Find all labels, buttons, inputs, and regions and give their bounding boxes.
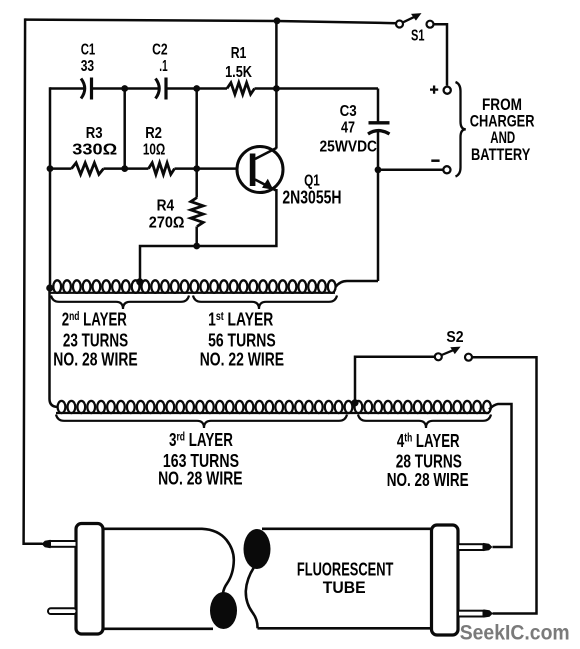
node R3-R2 junction [121,165,128,172]
svg-text:R4: R4 [157,198,175,215]
svg-text:3rd LAYER: 3rd LAYER [169,430,233,450]
wire S2 right down to tube bottom-right pin [472,357,536,613]
svg-text:1st LAYER: 1st LAYER [208,310,273,330]
svg-text:28 TURNS: 28 TURNS [396,452,462,472]
tube break blob right [244,529,271,569]
svg-text:NO. 22 WIRE: NO. 22 WIRE [200,349,284,369]
wire vertical x=124.7 (C1-C2 node down to R3-R2 node) [123,89,126,169]
svg-text:R2: R2 [145,125,162,142]
wire S1 to plus terminal [434,24,447,85]
label FROM CHARGER AND BATTERY [470,95,535,164]
svg-text:25WVDC: 25WVDC [320,139,378,156]
svg-text:R3: R3 [86,125,103,142]
svg-text:FLUORESCENT: FLUORESCENT [297,560,394,580]
switch S1 [396,13,434,28]
wire C1/C2/R1 row y=88.5 [50,87,84,90]
fluorescent tube right end cap [432,525,459,635]
label 1st layer block [200,310,284,370]
tube break blob left [210,592,237,629]
resistor R3 [72,163,104,175]
svg-text:33: 33 [81,58,94,75]
svg-text:SeekIC.com: SeekIC.com [460,621,570,645]
wire inner-left vertical x=50 [49,87,52,288]
wire coil2 tap up to S2 [355,357,435,403]
wire C3 riser bottom down to coil1 right end [377,130,380,281]
svg-text:56 TURNS: 56 TURNS [208,331,276,351]
battery brace [456,82,466,177]
fluorescent tube left body [103,529,234,593]
node R3 left junction [47,165,54,172]
label FLUORESCENT TUBE [297,560,394,598]
label 3rd layer block [158,430,243,489]
svg-text:270Ω: 270Ω [149,215,185,232]
resistor R4 [191,198,203,227]
svg-text:NO. 28 WIRE: NO. 28 WIRE [387,470,469,490]
node C1-C2 junction [121,85,128,92]
svg-text:C3: C3 [340,103,357,120]
svg-text:R1: R1 [231,45,247,62]
wire left outer border down to tube pin [24,18,43,543]
pin top-right [458,544,484,550]
svg-text:C2: C2 [152,42,168,59]
svg-text:BATTERY: BATTERY [471,145,531,164]
svg-text:10Ω: 10Ω [143,142,166,159]
svg-text:NO. 28 WIRE: NO. 28 WIRE [158,469,243,489]
brace 3rd layer [56,415,347,429]
svg-text:NO. 28 WIRE: NO. 28 WIRE [53,349,137,369]
winding coil row 2 (3rd + 4th layer) [56,412,489,414]
wire C3 riser top [377,89,380,122]
pin top-left [50,541,77,547]
brace 2nd layer [51,296,189,310]
label plus sign [430,86,438,94]
node R1-collector junction [273,85,280,92]
resistor R2 [149,163,175,175]
node junction top rail / collector riser [274,17,281,24]
node R4 bottom / emitter wire junction [193,243,200,250]
svg-text:TUBE: TUBE [323,578,366,597]
resistor R1 [227,83,255,95]
wire vertical x=196.7 (C2-R1 node down through R4) [195,89,198,198]
winding coil row 1 (2nd + 1st layer) [50,292,335,294]
wire collector riser x=276.4 [275,21,278,149]
brace 1st layer [193,296,337,310]
capacitor C1 [81,79,85,99]
node C3 / minus-wire junction [375,166,382,173]
svg-text:S1: S1 [411,28,425,45]
svg-text:.1: .1 [159,58,167,75]
svg-text:47: 47 [341,120,355,137]
label 4th layer block [387,431,469,490]
node coil1 tap (2nd/1st layer boundary) [136,278,143,285]
wire to minus terminal [378,169,443,172]
svg-text:4th LAYER: 4th LAYER [397,431,460,451]
capacitor C2 [156,79,160,99]
fluorescent tube left end cap [76,524,103,635]
pin bottom-right [458,611,484,617]
brace 4th layer [358,415,491,429]
node C2-R1 junction [193,85,200,92]
svg-text:2nd LAYER: 2nd LAYER [62,310,127,330]
node R2-base-R4 junction [193,165,200,172]
svg-text:S2: S2 [446,329,463,346]
capacitor C3 [369,121,390,124]
svg-text:330Ω: 330Ω [72,142,117,159]
svg-text:C1: C1 [81,42,96,59]
node minus terminal [443,166,450,173]
wire top supply rail [25,20,396,24]
node coil1 left end [46,284,53,291]
svg-text:23 TURNS: 23 TURNS [63,331,128,351]
node plus terminal [444,87,451,94]
wire coil2 right end down to tube top-right pin [489,404,512,547]
pin bottom-left (unconnected) [48,608,77,614]
fluorescent tube right body [262,527,432,530]
node coil2 tap (3rd/4th layer boundary) [351,399,358,406]
wire R3/R2/base row y=168.6 [50,167,72,170]
svg-text:1.5K: 1.5K [225,64,252,81]
svg-text:2N3055H: 2N3055H [282,187,341,207]
wire emitter run down and left to coil tap [140,189,276,282]
switch S2 [435,347,472,361]
wire inner-left vertical down to coil2 [50,288,59,407]
label 2nd layer block [53,310,137,370]
label minus sign [431,159,439,162]
transistor Q1 [237,147,283,193]
